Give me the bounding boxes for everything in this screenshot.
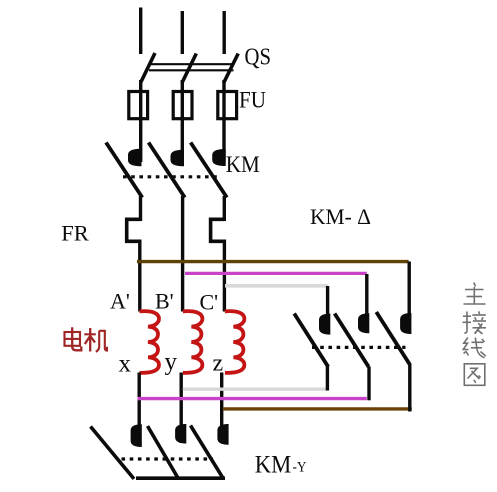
wire L2 KM to motor B': [181, 196, 184, 312]
wire gray y to KM-delta pole1 bottom: [183, 388, 328, 391]
contactor KM-Y blade pole2: [148, 426, 179, 479]
svg-text:A': A': [110, 289, 130, 314]
svg-text:y: y: [165, 349, 178, 376]
wire L3 QS to KM: [222, 80, 225, 162]
contactor KM blade pole1: [106, 143, 142, 198]
contactor KM-delta blade pole1: [294, 314, 328, 367]
wire L3 KM to FR: [223, 196, 226, 221]
contactor KM-Y linkage dotted line: [122, 457, 214, 460]
wire KM-delta pole2 bottom stub: [367, 367, 370, 401]
wire magenta B' to KM-delta pole2 top: [185, 272, 367, 275]
thermal relay FR heater pole3: [211, 219, 225, 241]
contactor KM arc pole2: [171, 150, 185, 167]
svg-text:z: z: [213, 351, 224, 377]
contactor KM-delta blade pole3: [376, 312, 410, 365]
wire phase L3 incoming: [222, 11, 225, 54]
svg-text:B': B': [155, 289, 174, 314]
QS linkage bar upper line: [149, 63, 234, 65]
contactor KM-Y blade pole1: [91, 427, 135, 479]
wire phase L2 incoming: [181, 11, 184, 54]
svg-text:KM: KM: [226, 152, 260, 177]
caption tu (diagram): [464, 364, 485, 386]
svg-text:-Y: -Y: [293, 460, 307, 476]
fuse FU pole1: [129, 92, 148, 119]
wire x below coil1: [137, 373, 140, 447]
contactor KM linkage dotted line: [123, 175, 217, 178]
wire y below coil2: [179, 373, 182, 444]
svg-text:FR: FR: [61, 221, 89, 246]
svg-text:QS: QS: [245, 44, 272, 70]
contactor KM-Y arc pole1: [131, 424, 142, 447]
svg-text:C': C': [200, 290, 219, 315]
switch QS blade pole1: [141, 53, 155, 83]
svg-text:x: x: [119, 351, 132, 378]
QS linkage bar lower line: [149, 69, 234, 71]
wire brown z to KM-delta pole3 bottom: [223, 407, 412, 410]
wire gray C' to KM-delta pole1 top: [225, 284, 328, 288]
contactor KM-Y blade pole3: [191, 426, 224, 479]
contactor KM-delta arc pole2: [358, 313, 369, 333]
svg-text:KM- Δ: KM- Δ: [310, 204, 371, 229]
caption xian (wire): [463, 338, 486, 358]
contactor KM-Y arc pole2: [175, 424, 186, 444]
motor winding coil A'-x: [140, 311, 160, 373]
contactor KM-Y arc pole3: [217, 424, 228, 445]
contactor KM blade pole3: [191, 143, 227, 198]
label dianji (motor) in red: [65, 327, 108, 352]
motor winding coil C'-z: [225, 311, 245, 373]
wire L3 FR to motor C': [223, 240, 226, 312]
contactor KM blade pole2: [149, 143, 185, 198]
caption jie (connect): [463, 311, 487, 334]
wire phase L1 incoming: [139, 8, 142, 55]
thermal relay FR heater pole1: [127, 219, 141, 241]
contactor KM arc pole3: [212, 149, 226, 166]
wire KM-delta pole2 top stub: [365, 274, 368, 314]
wire z below coil3: [220, 373, 223, 444]
fuse FU pole2: [173, 92, 192, 119]
wire L1 KM to FR: [139, 196, 142, 221]
svg-text:FU: FU: [239, 87, 266, 112]
contactor KM arc pole1: [128, 149, 142, 167]
wire KM-delta pole3 top stub: [408, 262, 411, 315]
contactor KM-delta blade pole2: [335, 314, 369, 367]
contactor KM-delta arc pole3: [400, 313, 411, 334]
star point bar: [136, 476, 225, 480]
wire KM-delta pole3 bottom stub: [408, 365, 411, 412]
contactor KM-delta linkage dotted line: [312, 346, 406, 349]
wire L2 QS to KM: [181, 80, 184, 162]
motor winding coil B'-y: [183, 311, 203, 373]
wire L1 FR to motor A': [138, 240, 141, 312]
wire brown A' to KM-delta pole3 top: [137, 260, 409, 263]
wire magenta x to KM-delta pole2 bottom: [138, 397, 367, 400]
fuse FU pole3: [218, 92, 237, 119]
caption zhu (main): [464, 283, 486, 305]
contactor KM-delta arc pole1: [319, 314, 330, 335]
switch QS blade pole2: [182, 54, 196, 84]
wire KM-delta pole1 bottom stub: [326, 367, 329, 391]
svg-text:KM: KM: [255, 451, 291, 478]
wire L1 QS to KM: [139, 80, 142, 162]
switch QS blade pole3: [224, 54, 239, 84]
wire KM-delta pole1 top stub: [326, 286, 329, 315]
